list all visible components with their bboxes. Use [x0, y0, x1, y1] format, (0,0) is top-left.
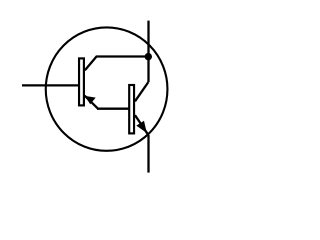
transistor Q2 base bar	[129, 85, 134, 133]
node junction dot	[145, 53, 152, 60]
wire Q1 collector to node	[85, 57, 149, 71]
wire emitter rail bottom	[147, 135, 149, 173]
wire Q2 collector diagonal	[135, 82, 148, 101]
wire Q1 emitter diagonal	[85, 96, 98, 109]
wire base lead left	[22, 84, 80, 86]
transistor Q1 emitter arrow	[85, 96, 96, 104]
wire Q2 emitter diagonal	[135, 115, 149, 135]
wire Q1 emitter to Q2 base	[97, 108, 130, 110]
transistor envelope circle	[46, 27, 168, 150]
wire collector rail top	[147, 21, 149, 83]
transistor Q1 base bar	[79, 58, 84, 105]
transistor Q2 emitter arrow	[136, 121, 147, 133]
